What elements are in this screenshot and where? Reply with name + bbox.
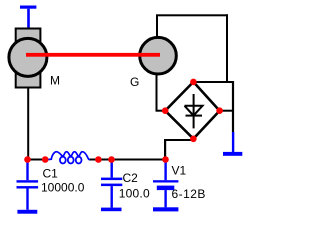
wire: vertical to right ground [232, 81, 234, 132]
node: C2 junction [108, 156, 115, 163]
inductor L1 (coil) [48, 152, 90, 164]
motor M body [9, 29, 47, 88]
wire: G bottom vertical [156, 75, 158, 111]
svg-text:10000.0: 10000.0 [41, 180, 85, 194]
node: rail junction 1 [24, 156, 31, 163]
wire: top horizontal [156, 14, 228, 16]
node: V1 junction [162, 156, 169, 163]
terminal top-left [20, 6, 36, 29]
capacitor C1 [17, 160, 39, 210]
svg-text:C2: C2 [123, 171, 139, 185]
ground under C2 [101, 208, 122, 212]
node: bridge left [162, 107, 169, 114]
node: coil right [95, 156, 102, 163]
wire: down to V1 node [164, 139, 166, 160]
ground right side [223, 132, 242, 156]
wire: bridge bottom horizontal [164, 139, 194, 141]
node: coil left [42, 156, 49, 163]
bridge rectifier VD1 diamond [165, 82, 219, 139]
wire: bottom rail mid [89, 159, 112, 161]
wire: G bottom to bridge left [156, 110, 166, 112]
svg-text:6-12В: 6-12В [172, 187, 206, 201]
wire: horizontal at bridge top [194, 81, 233, 83]
node: bridge bottom [190, 136, 197, 143]
wire: bottom rail right [111, 159, 166, 161]
ground under C1 [17, 210, 37, 214]
svg-text:V1: V1 [172, 163, 187, 177]
shaft (red) [26, 53, 160, 57]
node: bridge top [190, 79, 197, 86]
svg-text:G: G [130, 75, 139, 89]
wire: M bottom to rail [27, 88, 29, 161]
svg-text:100.0: 100.0 [119, 187, 150, 201]
battery V1 [153, 160, 178, 208]
wire: right vertical from top [226, 14, 228, 83]
diode inside bridge [185, 94, 203, 128]
wire: bottom rail left [27, 159, 48, 161]
capacitor C2 [101, 160, 122, 208]
svg-text:C1: C1 [43, 166, 59, 180]
generator G body [140, 37, 177, 74]
wire: stub bridge right corner [220, 110, 233, 112]
svg-text:M: M [50, 74, 60, 88]
ground under V1 [153, 207, 178, 211]
wire: G top vertical [156, 16, 158, 36]
node: bridge right [216, 107, 223, 114]
